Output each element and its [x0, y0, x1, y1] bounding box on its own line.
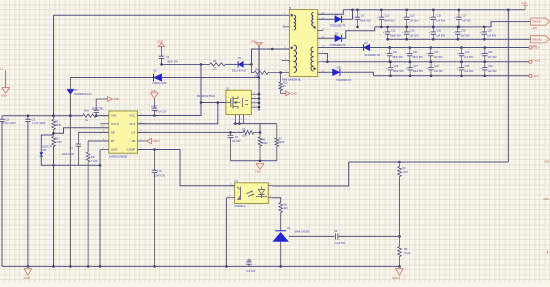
- capacitor C12: [383, 26, 401, 41]
- svg-text:GND: GND: [544, 160, 550, 163]
- svg-text:GNDDA2: GNDDA2: [532, 38, 543, 41]
- resistor R10: [252, 64, 290, 77]
- svg-text:C14: C14: [410, 29, 415, 32]
- net label right 1: [544, 160, 550, 163]
- T1 primary winding upper: [291, 14, 296, 30]
- port -15V: [529, 74, 539, 78]
- svg-text:+ C2: + C2: [3, 118, 9, 122]
- svg-text:C20: C20: [488, 29, 493, 32]
- svg-text:R8: R8: [91, 155, 95, 159]
- power port GND bottom left: [24, 269, 32, 281]
- svg-text:68uF 50V: 68uF 50V: [360, 20, 371, 23]
- svg-text:4.7uF 10V: 4.7uF 10V: [155, 111, 166, 114]
- wire bottom rail: [2, 265, 401, 268]
- svg-text:C11: C11: [385, 15, 390, 18]
- diode D6: [67, 78, 92, 267]
- resistor R7: [275, 124, 285, 161]
- svg-text:1uF 50V: 1uF 50V: [488, 70, 497, 73]
- svg-text:C19: C19: [247, 260, 252, 262]
- svg-text:10R: 10R: [242, 135, 247, 138]
- wire pin14 to rail1: [318, 10, 344, 15]
- svg-text:117K: 117K: [402, 171, 408, 174]
- svg-text:GND: GND: [24, 276, 30, 280]
- power port V2A: [521, 1, 527, 10]
- svg-text:COMP: COMP: [127, 148, 136, 152]
- capacitor C21: [385, 46, 403, 63]
- wire opto link: [273, 162, 349, 186]
- svg-text:ST2D2966-TR: ST2D2966-TR: [330, 44, 346, 47]
- power port GND u1: [108, 97, 120, 102]
- power port FB: [147, 138, 161, 143]
- svg-text:UVLO: UVLO: [111, 122, 120, 126]
- diode D3: [232, 57, 247, 72]
- capacitor C26: [386, 61, 404, 78]
- capacitor C17: [454, 9, 471, 29]
- svg-text:68nF 50V: 68nF 50V: [167, 61, 178, 64]
- capacitor C4b: [160, 63, 163, 66]
- svg-text:R2: R2: [55, 136, 59, 140]
- capacitor C25: [480, 46, 497, 63]
- op-amp U1 body: [101, 111, 147, 153]
- svg-text:1uF 50V: 1uF 50V: [488, 56, 497, 59]
- capacitor C16: [429, 26, 446, 41]
- capacitor C9: [353, 9, 371, 29]
- svg-text:1nF 50V: 1nF 50V: [232, 140, 241, 143]
- svg-text:10K: 10K: [283, 207, 288, 210]
- transistor Q1 body: [197, 88, 251, 115]
- capacitor C24: [457, 46, 474, 63]
- capacitor C3: [62, 132, 82, 165]
- svg-text:ES1A-E3-61T: ES1A-E3-61T: [232, 70, 247, 73]
- svg-text:C17: C17: [462, 15, 467, 18]
- resistor R4: [210, 60, 226, 70]
- svg-text:C13: C13: [410, 15, 415, 18]
- svg-text:1uF 16V: 1uF 16V: [246, 270, 255, 273]
- svg-text:SE: SE: [111, 131, 115, 135]
- U3 part number: [235, 205, 247, 208]
- T1 part number: [282, 79, 302, 82]
- wire gnd link: [52, 147, 100, 267]
- wire gnd vertical: [258, 46, 260, 111]
- power port GND r12: [286, 91, 297, 96]
- svg-text:68uF 50V: 68uF 50V: [393, 70, 404, 73]
- wire VCC: [138, 64, 202, 115]
- svg-text:C27: C27: [413, 65, 418, 68]
- capacitor C29: [457, 61, 474, 78]
- capacitor C23: [426, 46, 443, 63]
- capacitor C6: [228, 131, 241, 161]
- svg-text:R16: R16: [84, 109, 89, 113]
- T1 left pins: [282, 13, 290, 72]
- U3 internals: [237, 187, 267, 200]
- svg-text:C25: C25: [488, 51, 493, 54]
- T1 right pin stubs: [318, 13, 325, 73]
- svg-text:CS: CS: [131, 131, 135, 135]
- capacitor C18: [453, 26, 470, 41]
- wire output rail2b: [388, 38, 531, 40]
- svg-text:OUT: OUT: [129, 122, 135, 126]
- wire output rail4: [327, 61, 528, 63]
- resistor R1: [52, 114, 62, 136]
- svg-text:C21: C21: [393, 51, 398, 54]
- capacitor C8: [334, 230, 399, 245]
- capacitor C4: [159, 47, 210, 65]
- wire sense rail: [349, 161, 509, 164]
- svg-text:1uF 50V: 1uF 50V: [410, 20, 419, 23]
- capacitor C28: [426, 61, 443, 78]
- svg-text:+15V: +15V: [532, 46, 539, 50]
- power port GND d2: [251, 39, 263, 45]
- capacitor C11: [377, 9, 395, 29]
- zener D7 parallel loop: [40, 135, 54, 165]
- diode D8: [318, 27, 375, 47]
- svg-text:+ C10: + C10: [151, 106, 158, 108]
- svg-text:1uF 50V: 1uF 50V: [434, 70, 443, 73]
- U1 pin numbers: [101, 113, 142, 149]
- port -24V: [531, 36, 550, 48]
- wire gate link: [200, 101, 226, 104]
- svg-text:2K: 2K: [283, 85, 286, 88]
- wire sense drop: [507, 9, 510, 163]
- svg-text:51R2: 51R2: [262, 142, 268, 145]
- svg-text:ST2D2966-TR: ST2D2966-TR: [364, 54, 380, 57]
- svg-text:C24: C24: [465, 51, 470, 54]
- svg-text:VCC: VCC: [129, 114, 135, 118]
- svg-text:RM8 3W6296 BL: RM8 3W6296 BL: [282, 79, 302, 82]
- svg-text:68uF 50V: 68uF 50V: [413, 70, 424, 73]
- transformer T1 body: [289, 7, 318, 77]
- capacitor C20: [480, 26, 497, 41]
- svg-text:GNDDA1: GNDDA1: [532, 21, 543, 24]
- wire HV bus top: [54, 14, 290, 16]
- svg-text:607K: 607K: [55, 123, 61, 127]
- svg-text:3.3nF 6.3V: 3.3nF 6.3V: [153, 175, 165, 178]
- svg-text:C28: C28: [434, 65, 439, 68]
- Q1 bottom pins: [233, 115, 247, 125]
- wire output rail2: [375, 22, 531, 27]
- svg-text:GND: GND: [113, 97, 119, 101]
- svg-text:GND: GND: [544, 198, 550, 201]
- wire R4-D3: [200, 63, 238, 66]
- svg-text:RED5MC9GT1U: RED5MC9GT1U: [75, 94, 92, 96]
- svg-text:1uF 50V: 1uF 50V: [461, 34, 470, 37]
- optocoupler U3 body: [235, 180, 269, 203]
- power port GND left: [0, 66, 9, 97]
- wire primary gnd: [70, 76, 260, 79]
- svg-text:1uF 50V: 1uF 50V: [436, 20, 445, 23]
- svg-text:V2A: V2A: [521, 1, 526, 5]
- svg-text:C29: C29: [465, 65, 470, 68]
- svg-text:1uF 50V: 1uF 50V: [462, 20, 471, 23]
- power port GND2: [255, 164, 264, 174]
- wire source bus: [233, 124, 276, 133]
- diode D10: [318, 66, 374, 82]
- svg-text:RT: RT: [111, 139, 115, 143]
- svg-text:DK 60P4276GN: DK 60P4276GN: [197, 95, 215, 98]
- wire output rail1: [343, 9, 525, 11]
- wire OUT: [138, 103, 218, 124]
- svg-text:GND: GND: [157, 40, 163, 44]
- wire ref: [289, 235, 335, 237]
- svg-text:GND1: GND1: [392, 276, 400, 280]
- svg-text:1uF 50V: 1uF 50V: [410, 34, 419, 37]
- svg-text:C26: C26: [394, 65, 399, 68]
- svg-text:C18: C18: [461, 29, 466, 32]
- wire output rail3: [390, 47, 529, 49]
- svg-text:68uF 50V: 68uF 50V: [390, 34, 401, 37]
- svg-text:1uF 50V: 1uF 50V: [434, 56, 443, 59]
- port +15V: [529, 46, 540, 50]
- svg-text:100n C7B1: 100n C7B1: [92, 107, 105, 110]
- wire centre tap: [318, 54, 329, 64]
- net label right 3: [547, 251, 549, 253]
- capacitor C22: [405, 46, 423, 63]
- svg-text:10nF 100V: 10nF 100V: [62, 152, 75, 156]
- svg-text:+24V: +24V: [531, 27, 537, 30]
- capacitor C5: [152, 148, 166, 266]
- svg-text:ST2D2966-TR: ST2D2966-TR: [336, 79, 352, 82]
- svg-text:GND: GND: [291, 92, 297, 96]
- capacitor C15: [429, 9, 446, 29]
- diode D4: [318, 9, 354, 28]
- svg-text:68uF 50V: 68uF 50V: [393, 56, 404, 59]
- wire HV bus drop: [53, 15, 55, 116]
- svg-text:LM5025-DBGB: LM5025-DBGB: [109, 154, 127, 158]
- capacitor C7: [92, 99, 108, 117]
- svg-text:68uF 50V: 68uF 50V: [384, 20, 395, 23]
- wire SE: [78, 131, 108, 133]
- svg-text:2.2nF 50V: 2.2nF 50V: [334, 242, 345, 245]
- svg-text:ST2D2966-TR: ST2D2966-TR: [330, 25, 346, 28]
- capacitor C1: [25, 114, 45, 266]
- shunt regulator D1: [272, 227, 310, 266]
- svg-text:562R: 562R: [279, 141, 285, 144]
- svg-text:GND: GND: [255, 170, 261, 174]
- svg-text:GND2: GND2: [153, 139, 161, 143]
- wire gnd2 net: [230, 160, 276, 163]
- svg-text:C30: C30: [488, 65, 493, 68]
- power port GND c10: [150, 89, 158, 98]
- resistor R11: [279, 203, 288, 231]
- svg-text:C15: C15: [437, 15, 442, 18]
- port +24V: [531, 18, 550, 30]
- wire CS: [138, 131, 244, 133]
- resistor R9: [398, 236, 411, 266]
- U1 part number: [109, 154, 127, 158]
- svg-text:10.2K: 10.2K: [404, 252, 411, 255]
- svg-text:PS2811-1: PS2811-1: [235, 205, 247, 208]
- resistor R2: [52, 136, 62, 146]
- T1 primary winding lower: [291, 45, 297, 73]
- Q1 mosfet symbol: [221, 96, 248, 109]
- capacitor C14: [402, 26, 419, 41]
- svg-text:+ C1: + C1: [29, 118, 35, 122]
- capacitor C27: [406, 61, 424, 78]
- resistor R5: [242, 128, 261, 137]
- svg-text:1uF 50V: 1uF 50V: [436, 34, 445, 37]
- svg-text:2.07K: 2.07K: [55, 140, 62, 144]
- T1 secondary winding upper: [312, 13, 316, 29]
- svg-text:+ C5: + C5: [157, 170, 163, 173]
- svg-text:71.0K: 71.0K: [91, 159, 98, 163]
- resistor R12 snubber: [279, 71, 288, 93]
- Q1 right pins: [251, 92, 260, 108]
- capacitor C13: [402, 9, 419, 29]
- wire UVLO tap: [52, 128, 109, 135]
- capacitor C2: [0, 116, 16, 267]
- svg-text:R11: R11: [283, 203, 288, 206]
- svg-text:D10: D10: [337, 66, 342, 69]
- capacitor C19: [246, 259, 256, 274]
- diode D5: [152, 70, 166, 86]
- wire U3 out: [273, 198, 281, 203]
- diode D9: [318, 42, 391, 57]
- svg-text:+ C6: + C6: [233, 136, 239, 139]
- svg-text:LMV431ACM5: LMV431ACM5: [294, 231, 310, 234]
- resistor R16: [83, 109, 97, 123]
- wire input rail: [2, 115, 109, 117]
- svg-text:C23: C23: [434, 51, 439, 54]
- svg-text:1uF 50V: 1uF 50V: [487, 34, 496, 37]
- svg-text:-15V: -15V: [532, 74, 538, 78]
- svg-text:GND: GND: [111, 148, 117, 152]
- svg-text:FB: FB: [132, 139, 136, 143]
- capacitor C10: [151, 98, 167, 117]
- svg-text:C22: C22: [413, 51, 418, 54]
- resistor R6: [258, 132, 268, 160]
- U3 pins: [226, 184, 272, 198]
- power port GND1 bottom: [392, 269, 403, 281]
- T1 secondary winding lower: [311, 47, 316, 71]
- svg-text:1uF 50V: 1uF 50V: [464, 70, 473, 73]
- svg-text:GND: GND: [1, 93, 7, 97]
- port GND1 right: [529, 59, 541, 64]
- wire D3-pin3: [243, 48, 289, 66]
- wire U3 cathode: [225, 198, 227, 267]
- svg-text:R1: R1: [55, 119, 59, 123]
- power port GND c4: [157, 40, 165, 47]
- wire COMP: [138, 150, 235, 186]
- resistor R8: [86, 141, 108, 266]
- svg-text:CMR1U-02M: CMR1U-02M: [152, 82, 166, 85]
- svg-text:4.7uF 100V: 4.7uF 100V: [32, 121, 46, 125]
- svg-text:GND1: GND1: [532, 59, 541, 63]
- capacitor C30: [480, 61, 497, 78]
- svg-text:C16: C16: [437, 29, 442, 32]
- resistor R3: [398, 162, 409, 238]
- svg-text:R10: R10: [256, 68, 261, 71]
- net label right 2: [544, 198, 550, 201]
- svg-text:C12: C12: [391, 29, 396, 32]
- svg-text:68uF 50V: 68uF 50V: [413, 56, 424, 59]
- svg-text:4.7uF 100V: 4.7uF 100V: [2, 121, 16, 125]
- wire output rail5: [373, 75, 528, 77]
- svg-text:VIN: VIN: [111, 114, 116, 118]
- wire U1 gnd: [99, 150, 102, 267]
- svg-text:1uF 50V: 1uF 50V: [464, 56, 473, 59]
